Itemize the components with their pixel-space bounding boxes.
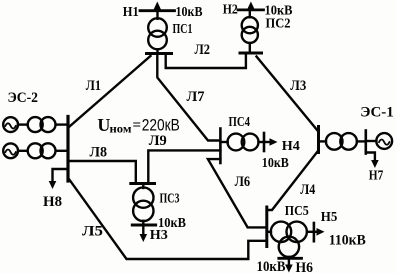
svg-text:Л2: Л2 <box>195 42 211 58</box>
svg-text:10кВ: 10кВ <box>262 156 289 171</box>
svg-text:Л4: Л4 <box>300 182 315 198</box>
svg-text:Л5: Л5 <box>82 224 103 240</box>
svg-text:10кВ: 10кВ <box>257 259 286 274</box>
svg-text:Л1: Л1 <box>86 78 101 94</box>
svg-text:ЭС-1: ЭС-1 <box>360 104 394 120</box>
svg-text:ПС2: ПС2 <box>266 17 291 32</box>
svg-text:=: = <box>133 118 142 134</box>
svg-text:Н8: Н8 <box>43 194 62 210</box>
svg-text:Л3: Л3 <box>290 78 306 94</box>
svg-text:ПС1: ПС1 <box>173 22 193 37</box>
svg-text:ПС4: ПС4 <box>229 115 251 130</box>
svg-text:110кВ: 110кВ <box>329 232 366 248</box>
svg-text:Л8: Л8 <box>90 144 108 160</box>
svg-text:Н2: Н2 <box>223 2 238 17</box>
svg-text:Н4: Н4 <box>282 139 300 154</box>
svg-text:10кВ: 10кВ <box>176 5 203 20</box>
svg-text:ЭС-2: ЭС-2 <box>8 90 39 106</box>
svg-text:ном: ном <box>110 124 132 136</box>
svg-text:ПС5: ПС5 <box>285 204 309 219</box>
svg-text:Н6: Н6 <box>296 260 314 274</box>
svg-text:U: U <box>97 115 110 135</box>
svg-text:Л9: Л9 <box>149 133 167 149</box>
svg-text:Н7: Н7 <box>369 169 384 184</box>
svg-text:Л6: Л6 <box>235 174 251 190</box>
svg-text:Л7: Л7 <box>187 89 205 105</box>
svg-text:Н5: Н5 <box>321 210 338 225</box>
svg-text:Н3: Н3 <box>150 228 168 243</box>
svg-text:220кВ: 220кВ <box>142 116 180 135</box>
svg-text:ПС3: ПС3 <box>160 191 180 206</box>
svg-text:Н1: Н1 <box>123 5 139 20</box>
